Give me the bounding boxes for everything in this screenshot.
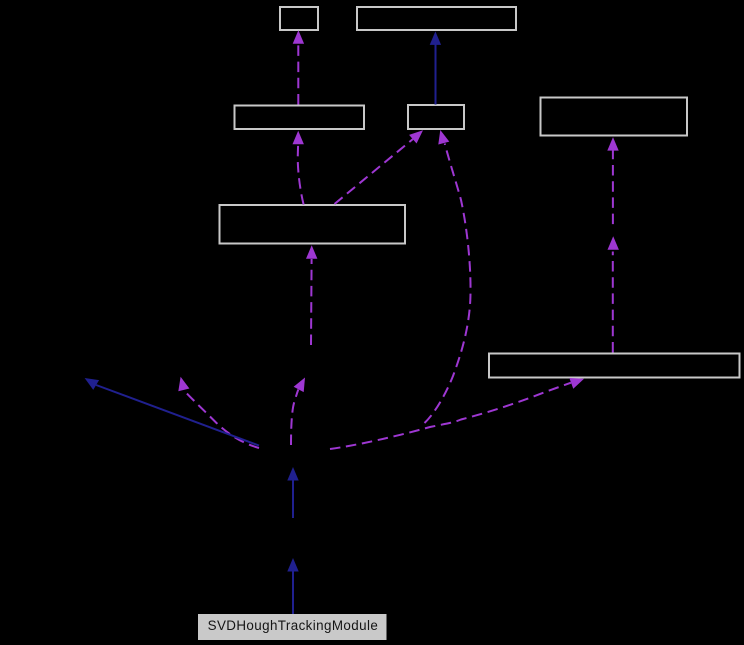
- arrowhead blue diagonal: [82, 373, 99, 390]
- arrowhead lower blue segment: [287, 558, 298, 572]
- arrowhead box6 to box3: [293, 131, 304, 145]
- node box7 (lower right wide class box): [489, 354, 740, 378]
- node box1 (top small class box): [280, 7, 318, 30]
- edge hub to left invisible node (solid blue inheritance diagonal): [96, 385, 259, 446]
- arrowhead box4 to box2: [430, 31, 441, 45]
- node box2 (top wide class box): [357, 7, 516, 30]
- arrowhead box3 to box1: [293, 30, 304, 44]
- edge box6 to box3 (dashed, slight curve): [298, 145, 304, 205]
- edge box7 to mid invisible node (dashed vertical, lower segment): [612, 252, 614, 353]
- arrowhead into box7 bottom: [569, 373, 586, 388]
- arrowhead into box5 bottom: [607, 137, 618, 151]
- node box5 (right two-line class box): [541, 98, 688, 136]
- arrowhead hub mid S curve: [294, 375, 310, 392]
- edge graybox to mid invisible node (solid blue, lower segment): [292, 572, 294, 615]
- node box3 (second row left class box): [235, 106, 365, 130]
- svg-text:SVDHoughTrackingModule: SVDHoughTrackingModule: [208, 618, 379, 633]
- edge box3 to box1 (dashed): [297, 42, 299, 105]
- arrowhead hub to box4: [435, 129, 450, 145]
- edge box4 to box2 (solid inheritance): [435, 43, 437, 105]
- edge box6 to box4 (dashed diagonal): [335, 139, 413, 204]
- mid arrowhead on box7-box5 line: [608, 236, 619, 250]
- edge hub to box7 (long shallow dashed polyline): [330, 383, 571, 449]
- edge mid invisible node to box5 (dashed vertical, upper segment): [612, 151, 614, 225]
- edge hub to mid invisible node (dashed S curve): [291, 390, 298, 446]
- node box6 (middle two-line class box): [220, 205, 406, 244]
- arrowhead upper blue segment: [287, 467, 298, 481]
- edge hub to box4 (long dashed curve on right of box6): [425, 144, 471, 424]
- node box4 (second row small class box): [408, 105, 464, 129]
- arrowhead box6 to box4: [409, 126, 427, 143]
- edge hub to left invisible node (dashed curve up-left): [184, 390, 259, 448]
- arrowhead hub-left curve: [175, 375, 189, 391]
- edge mid invisible node to box6 (dashed vertical): [310, 259, 313, 345]
- edge mid invisible node to hub (solid blue, upper segment): [292, 481, 294, 519]
- arrowhead into box6 bottom: [306, 245, 317, 258]
- node SVDHoughTrackingModule (gray filled): [198, 614, 387, 640]
